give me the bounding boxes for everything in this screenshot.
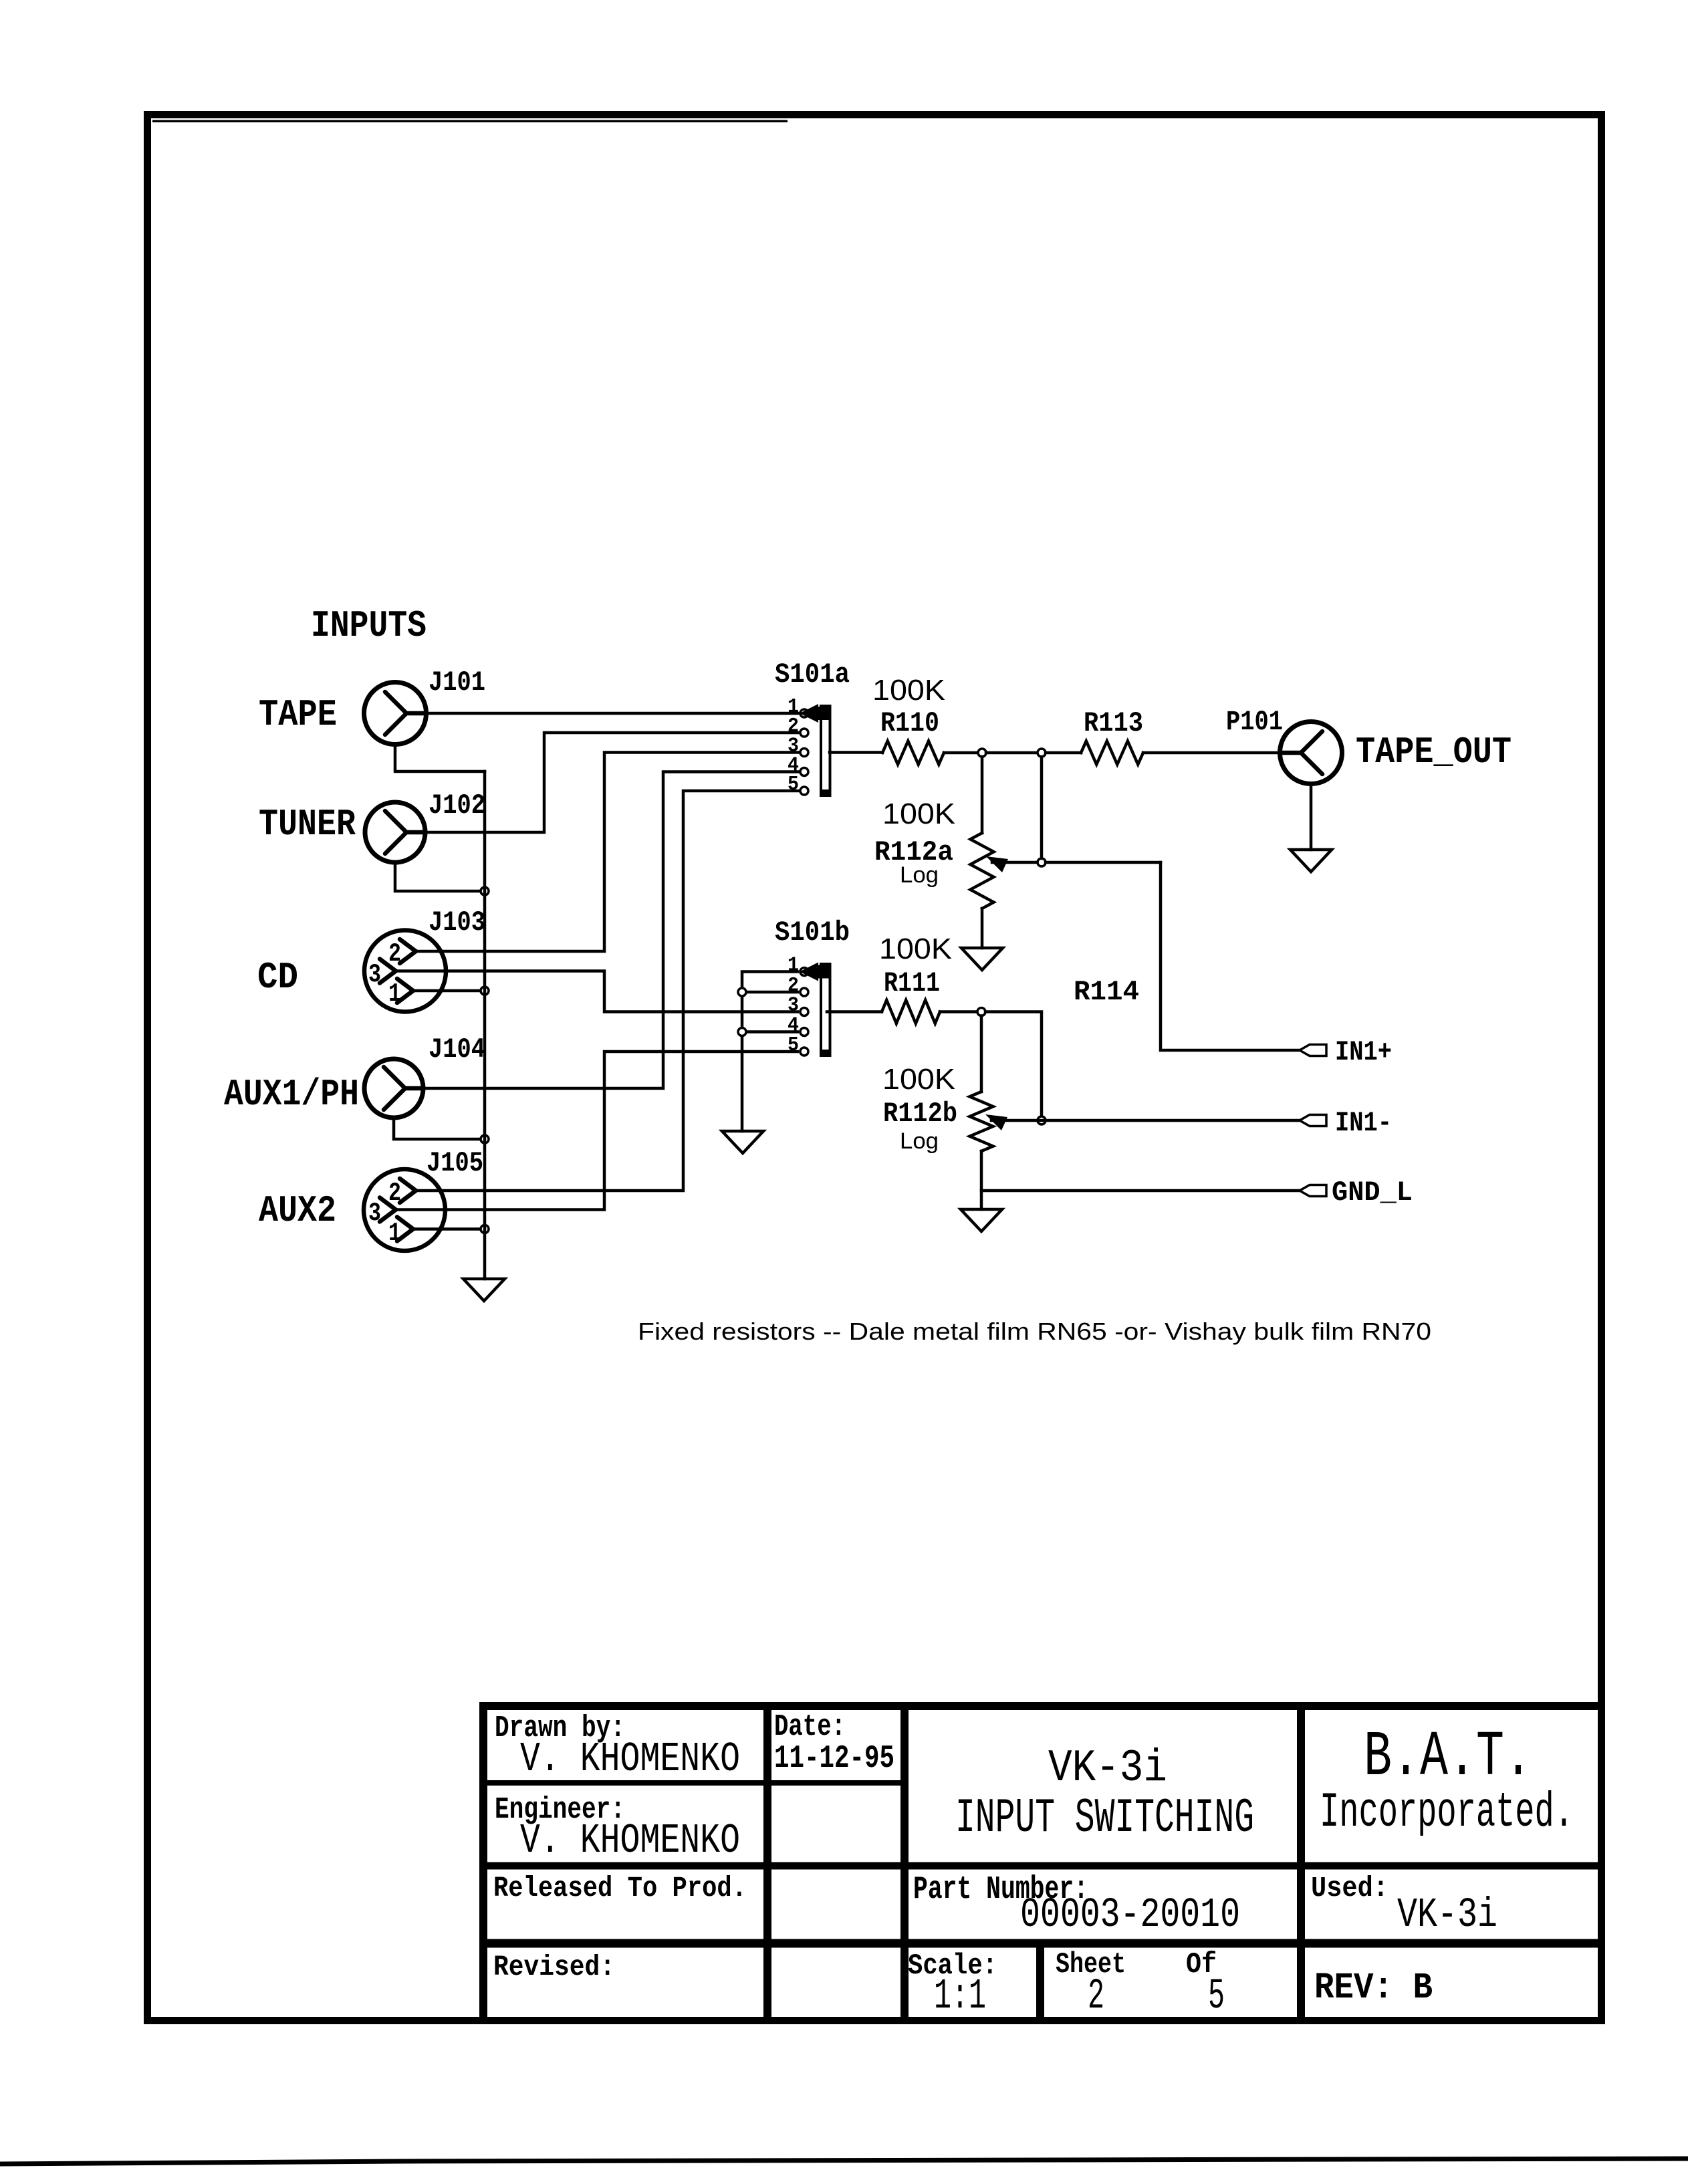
wire wiper line to R114 riser: [1046, 861, 1161, 864]
wire R111 to junction C: [940, 1010, 977, 1013]
svg-text:R113: R113: [1084, 707, 1143, 739]
svg-text:5: 5: [788, 773, 799, 796]
wire S101b pin1 to ground riser: [742, 972, 798, 1132]
svg-text:100K: 100K: [882, 798, 955, 830]
wire S101a rotor output: [830, 751, 882, 754]
wire CD pin1 to ground bus: [413, 989, 485, 993]
svg-text:GND_L: GND_L: [1332, 1177, 1413, 1209]
svg-text:Revised:: Revised:: [493, 1951, 615, 1983]
wire R112a bottom to ground: [981, 908, 984, 948]
svg-text:AUX2: AUX2: [259, 1189, 336, 1232]
junction riser/pin2: [738, 988, 746, 996]
svg-text:IN1-: IN1-: [1335, 1107, 1392, 1139]
wire TUNER ground to bus: [395, 862, 485, 891]
wire S101b pin4 stub: [742, 1030, 798, 1034]
wire junction C to IN1- drop: [985, 1012, 1042, 1117]
svg-text:Released To Prod.: Released To Prod.: [493, 1872, 747, 1905]
svg-text:Log: Log: [900, 862, 939, 888]
svg-text:REV: B: REV: B: [1314, 1967, 1433, 2009]
svg-text:5: 5: [788, 1034, 799, 1057]
svg-text:00003-20010: 00003-20010: [1020, 1891, 1240, 1939]
svg-text:VK-3i: VK-3i: [1397, 1891, 1497, 1939]
switch S101b body: [800, 963, 832, 1057]
wire AUX2 pin1 to ground bus: [413, 1227, 485, 1231]
svg-text:INPUT SWITCHING: INPUT SWITCHING: [955, 1791, 1254, 1846]
svg-text:P101: P101: [1226, 706, 1283, 738]
svg-text:AUX1/PH: AUX1/PH: [224, 1073, 359, 1116]
svg-text:J105: J105: [427, 1147, 483, 1179]
wire TAPE jack ground to bus: [395, 744, 485, 771]
ground symbol R112b: [961, 1209, 1002, 1231]
wire CD pin2 to S101a pin3: [416, 753, 798, 952]
junction IN1- line: [1038, 1116, 1046, 1124]
phono jack J101 (TAPE): [364, 683, 427, 745]
resistor R110: [882, 741, 944, 765]
svg-text:V. KHOMENKO: V. KHOMENKO: [520, 1735, 740, 1783]
junction B (R113 in / wiper link): [1038, 749, 1046, 757]
svg-text:Fixed resistors -- Dale metal: Fixed resistors -- Dale metal film RN65 …: [638, 1318, 1431, 1345]
svg-text:J101: J101: [429, 666, 485, 699]
wire R113 to P101: [1143, 751, 1280, 755]
wire junction B to R113: [1046, 751, 1081, 755]
potentiometer R112a element: [971, 833, 994, 908]
terminal IN1+: [1300, 1045, 1326, 1056]
title block grid: [483, 1706, 1598, 2018]
svg-text:R114: R114: [1074, 976, 1139, 1008]
svg-text:TUNER: TUNER: [259, 803, 356, 846]
ground symbol R112a: [961, 948, 1003, 970]
svg-text:100K: 100K: [879, 933, 952, 965]
svg-text:2: 2: [388, 1179, 401, 1208]
wire P101 ground drop: [1310, 784, 1313, 850]
terminal IN1-: [1300, 1115, 1326, 1126]
wire S101b rotor output: [827, 1010, 882, 1013]
svg-text:S101b: S101b: [775, 917, 850, 949]
switch S101a body: [800, 704, 832, 796]
wire AUX2 pin2 to S101a pin5: [416, 791, 798, 1191]
svg-text:V. KHOMENKO: V. KHOMENKO: [520, 1817, 740, 1864]
svg-text:J103: J103: [429, 906, 485, 939]
svg-text:J102: J102: [429, 790, 485, 822]
svg-text:TAPE_OUT: TAPE_OUT: [1356, 731, 1512, 773]
svg-text:R110: R110: [880, 707, 939, 739]
svg-text:3: 3: [368, 960, 381, 989]
svg-text:B.A.T.: B.A.T.: [1364, 1721, 1532, 1794]
phono jack J102 (TUNER): [365, 802, 425, 862]
wire junction A down to R112a: [981, 757, 984, 833]
svg-text:R112b: R112b: [883, 1098, 957, 1130]
ground symbol main bus: [463, 1279, 505, 1301]
svg-text:R111: R111: [884, 967, 940, 999]
wire TAPE jack to S101a pin1: [427, 712, 799, 715]
S101a pin numbers 1-5: [788, 695, 799, 796]
border frame: [148, 115, 1602, 2021]
junction C (R111 out / R112b top): [977, 1008, 985, 1016]
svg-text:INPUTS: INPUTS: [311, 604, 427, 647]
svg-text:100K: 100K: [872, 674, 945, 707]
DIN jack J103 (CD): [364, 931, 446, 1012]
wire CD pin3 to S101b pin3: [396, 971, 798, 1012]
svg-text:1:1: 1:1: [934, 1973, 986, 2021]
svg-text:2: 2: [1088, 1973, 1104, 2021]
wire GND_L: [981, 1189, 1300, 1193]
svg-text:VK-3i: VK-3i: [1048, 1743, 1167, 1794]
resistor R111: [882, 1000, 940, 1023]
resistor R113: [1081, 741, 1143, 765]
junction riser/pin4: [738, 1028, 746, 1036]
ground symbol P101: [1290, 850, 1332, 872]
S101b pin numbers 1-5: [788, 954, 799, 1058]
R112b wiper arrow: [985, 1114, 1300, 1130]
ground bus wire: [483, 771, 487, 1279]
svg-text:Incorporated.: Incorporated.: [1320, 1785, 1574, 1840]
svg-text:2: 2: [388, 939, 401, 969]
junction wiper line: [1038, 858, 1046, 866]
wire R112b bottom / GND_L tee: [980, 1151, 983, 1209]
svg-text:TAPE: TAPE: [259, 693, 337, 736]
wire AUX1 signal to S101a pin4: [423, 772, 798, 1089]
wire junction A to junction B: [986, 751, 1038, 755]
wire AUX1 ground to bus: [394, 1118, 485, 1139]
svg-text:1: 1: [388, 979, 401, 1009]
wire TUNER signal to riser: [425, 733, 798, 832]
junction bus/TUNER ground: [481, 887, 489, 895]
bottom scan artifact line: [0, 2159, 1688, 2164]
terminal GND_L: [1300, 1185, 1326, 1197]
R112a wiper arrow: [986, 856, 1038, 872]
junction A (R110 / R112a top): [978, 749, 986, 757]
svg-text:IN1+: IN1+: [1335, 1036, 1392, 1068]
svg-text:5: 5: [1208, 1973, 1225, 2021]
wire S101b pin2 stub: [742, 991, 798, 994]
phono jack J104 (AUX1/PH): [364, 1059, 423, 1118]
svg-text:Used:: Used:: [1311, 1872, 1389, 1905]
phono jack P101 (TAPE_OUT): [1280, 722, 1342, 784]
svg-text:J104: J104: [429, 1034, 485, 1066]
ground symbol S101b riser: [722, 1131, 763, 1153]
svg-text:100K: 100K: [882, 1063, 955, 1096]
potentiometer R112b element: [970, 1092, 993, 1151]
wire junction C down to R112b: [980, 1016, 983, 1092]
svg-text:11-12-95: 11-12-95: [774, 1741, 894, 1777]
junction bus/CD pin1: [481, 987, 489, 995]
svg-text:Date:: Date:: [774, 1710, 846, 1744]
wire AUX2 pin3 to S101b pin5: [396, 1052, 798, 1210]
wire R110 to junction A: [944, 751, 978, 755]
junction bus/AUX2 pin1: [481, 1225, 489, 1233]
svg-text:3: 3: [368, 1199, 381, 1228]
svg-text:Log: Log: [900, 1128, 939, 1154]
wire junction B down to wiper line: [1040, 757, 1044, 858]
svg-text:S101a: S101a: [775, 658, 850, 691]
svg-text:CD: CD: [257, 956, 298, 999]
wire R114 riser to IN1+: [1161, 862, 1300, 1050]
junction bus/AUX1 ground: [481, 1135, 489, 1143]
DIN jack J105 (AUX2): [364, 1169, 445, 1251]
svg-text:1: 1: [388, 1219, 401, 1248]
